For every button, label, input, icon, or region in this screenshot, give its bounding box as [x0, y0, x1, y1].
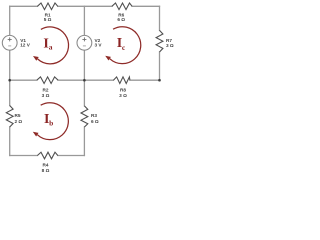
- svg-text:R4: R4: [43, 163, 49, 168]
- svg-text:c: c: [122, 43, 126, 52]
- svg-text:2 Ω: 2 Ω: [15, 119, 23, 124]
- svg-text:b: b: [49, 118, 53, 127]
- svg-text:3 Ω: 3 Ω: [42, 93, 50, 98]
- svg-text:R3: R3: [91, 113, 97, 118]
- svg-text:5 Ω: 5 Ω: [44, 17, 52, 22]
- svg-text:R5: R5: [15, 113, 21, 118]
- svg-text:12 V: 12 V: [20, 43, 31, 48]
- svg-text:6 Ω: 6 Ω: [91, 119, 99, 124]
- svg-text:a: a: [49, 42, 53, 51]
- svg-text:3 Ω: 3 Ω: [119, 93, 127, 98]
- svg-text:R2: R2: [43, 87, 49, 92]
- svg-text:R8: R8: [120, 87, 126, 92]
- svg-text:3 V: 3 V: [95, 43, 103, 48]
- svg-text:3 Ω: 3 Ω: [166, 43, 174, 48]
- svg-text:6 Ω: 6 Ω: [117, 17, 125, 22]
- svg-text:8 Ω: 8 Ω: [42, 168, 50, 173]
